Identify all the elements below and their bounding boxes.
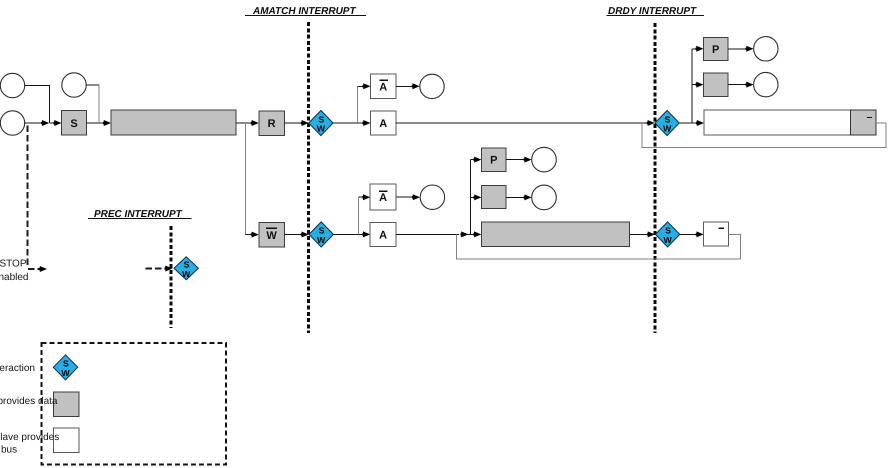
svg-text:Master provides data: Master provides data	[0, 396, 58, 407]
svg-text:A: A	[379, 81, 387, 93]
wire C1 elbow vertical	[49, 86, 51, 124]
node circle C3 (above S)	[62, 73, 86, 97]
S/W decision diamond D5 (PREC)	[174, 257, 198, 280]
arrow into AMATCH diamond row1	[301, 120, 309, 126]
box A-bar row1 (NACK)	[371, 74, 397, 99]
S/W decision diamond D2 (AMATCH row2)	[309, 222, 333, 247]
svg-text:Slave provides: Slave provides	[0, 432, 59, 443]
wire A row1 to DRDY diamond	[396, 122, 647, 124]
wire branch to Abar row2	[358, 196, 362, 198]
AMATCH interrupt boundary dotted line	[307, 22, 310, 333]
arrow into junction	[41, 120, 49, 126]
arrow into address box	[103, 120, 111, 126]
arrow into AMATCH diamond row2	[301, 232, 309, 238]
wire branch vertical to Abar row2	[357, 197, 359, 234]
arrow into circle C5	[412, 194, 420, 200]
wire C2 to junction	[25, 122, 42, 124]
arrow into W box	[251, 232, 259, 238]
wire A row2 to junction	[396, 233, 459, 235]
legend dashed border	[42, 343, 227, 465]
wire address box to R/W junction	[236, 122, 251, 124]
arrow into Abar row1	[363, 83, 371, 89]
dashed wire from C2 junction down (STOP path)	[27, 126, 29, 266]
box S (start condition)	[62, 111, 87, 136]
svg-text:W: W	[663, 124, 672, 134]
svg-text:W: W	[317, 235, 326, 245]
box R (read)	[259, 111, 285, 135]
title DRDY INTERRUPT	[607, 6, 705, 17]
svg-text:Software interaction: Software interaction	[0, 363, 35, 374]
wire C3 elbow vertical	[98, 85, 100, 123]
arrow into DRDY diamond row2	[647, 231, 655, 237]
svg-text:W: W	[663, 235, 672, 245]
arrow into circle C7	[746, 82, 754, 88]
arrow into R box	[251, 120, 259, 126]
legend white box (slave provides data)	[54, 428, 80, 453]
wire P top to circle C6	[728, 48, 746, 50]
wire Abar row2 to circle C5	[396, 196, 412, 198]
arrow into Abar row2	[362, 194, 370, 200]
arrow into Sr top	[696, 82, 704, 88]
wire D4 to SMEN box	[680, 233, 696, 235]
PREC interrupt boundary dotted line	[170, 226, 173, 328]
box SMEN row2 (white with minus)	[704, 222, 729, 246]
svg-text:W: W	[61, 368, 70, 378]
box DATA row1 (white long box)	[704, 110, 876, 135]
arrow into circle C8	[524, 157, 532, 163]
wire branch to Abar row1	[358, 85, 363, 87]
box P row2 (stop condition)	[481, 148, 506, 171]
svg-text:A: A	[379, 118, 387, 130]
arrow into Sr row2	[473, 194, 481, 200]
arrow mid junction row2	[460, 231, 468, 237]
arrow into circle C9	[524, 194, 532, 200]
node circle C8	[532, 147, 557, 172]
wire branch vertical to Abar row1	[357, 86, 359, 123]
arrow into DRDY diamond row1	[647, 120, 655, 126]
wire branch to Sr top	[692, 84, 696, 86]
wire P row2 to circle C8	[506, 159, 524, 161]
box A row2 (ACK)	[370, 222, 396, 246]
node circle C2 (start event)	[0, 111, 24, 135]
box DATA row2 (gray long box)	[481, 222, 629, 247]
svg-text:enabled: enabled	[0, 272, 29, 283]
wire branch to P top	[692, 48, 696, 50]
svg-text:Interrupt on STOP: Interrupt on STOP	[0, 259, 27, 270]
wire branch to P row2	[470, 159, 473, 161]
dashed arrow into PREC diamond	[146, 266, 173, 272]
svg-text:A: A	[379, 192, 387, 204]
node circle C1 (top-left event)	[0, 73, 24, 97]
wire loop1 from DATA box right	[642, 123, 886, 148]
arrow into circle C6	[746, 46, 754, 52]
arrow into P top	[696, 46, 704, 52]
box A-bar row2 (NACK)	[370, 184, 396, 210]
wire junction to W box	[245, 234, 251, 236]
svg-text:W: W	[317, 124, 326, 134]
title AMATCH INTERRUPT	[245, 6, 366, 17]
wire junction down to W row	[244, 123, 246, 235]
legend gray box (master provides data)	[54, 392, 80, 417]
arrow into P row2	[473, 157, 481, 163]
wire C1 elbow horizontal	[25, 85, 50, 87]
svg-text:W: W	[266, 230, 277, 242]
title PREC INTERRUPT	[88, 209, 192, 220]
node circle C4	[420, 74, 444, 98]
box Sr top (repeated start, gray blank)	[704, 73, 729, 96]
arrow into A row1	[363, 120, 371, 126]
wire loop2 from SMEN box right	[456, 234, 740, 259]
svg-text:A: A	[379, 229, 387, 241]
svg-text:bus: bus	[1, 445, 17, 456]
node circle C5	[420, 185, 444, 209]
wire branch vertical up to P row2	[469, 160, 471, 235]
arrow into DATA box row1	[696, 120, 704, 126]
wire Abar row1 to circle	[396, 85, 412, 87]
S/W decision diamond D1 (AMATCH row1)	[309, 111, 333, 136]
wire branch to Sr row2	[470, 196, 473, 198]
arrow into SMEN box	[696, 231, 704, 237]
svg-text:P: P	[490, 155, 497, 167]
wire Sr top to circle C7	[728, 84, 746, 86]
wire branch vertical up to P row	[691, 49, 693, 123]
S/W decision diamond D3 (DRDY row1)	[655, 111, 679, 136]
box P top (stop condition)	[704, 37, 729, 60]
svg-text:R: R	[268, 118, 276, 130]
svg-text:W: W	[182, 269, 191, 279]
node circle C9	[532, 185, 557, 210]
box Sr row2 (repeated start, gray blank)	[481, 185, 506, 208]
wire D2 to A row2	[333, 233, 362, 235]
wire DATA row2 to DRDY diamond	[629, 233, 647, 235]
box interrupt-flag sub-box row1 (gray with minus)	[851, 110, 877, 135]
arrow into S box	[54, 120, 62, 126]
label STOP enabled	[0, 259, 29, 284]
wire junction to S box	[50, 122, 54, 124]
box W-bar (write)	[259, 223, 285, 247]
wire Sr row2 to circle C9	[506, 196, 524, 198]
wire junction to DATA box row2	[467, 233, 473, 235]
box A row1 (ACK)	[371, 111, 397, 135]
svg-text:P: P	[712, 44, 719, 56]
wire R to AMATCH diamond	[285, 122, 302, 124]
S/W decision diamond D4 (DRDY row2)	[655, 222, 679, 247]
wire W to AMATCH diamond row2	[285, 234, 302, 236]
legend S/W diamond	[53, 355, 77, 380]
arrow into DATA box row2	[473, 231, 481, 237]
arrow into A row2	[362, 231, 370, 237]
node circle C7	[754, 72, 778, 96]
wire C3 elbow horizontal	[86, 84, 99, 86]
dashed arrow from STOP label	[28, 266, 47, 272]
node circle C6	[754, 37, 778, 61]
wire D1 to A row1	[333, 122, 362, 124]
wire D3 to DATA box row1	[679, 122, 696, 124]
box ADDRESS (gray long box)	[111, 110, 236, 135]
svg-text:S: S	[70, 118, 77, 130]
wire S to address box	[87, 122, 104, 124]
DRDY interrupt boundary dotted line	[654, 23, 657, 333]
arrow into circle C4	[412, 83, 420, 89]
